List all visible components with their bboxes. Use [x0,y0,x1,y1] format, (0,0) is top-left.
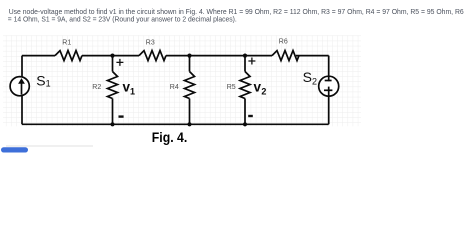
svg-text:R3: R3 [146,40,155,47]
wire branch R4 bottom lead [189,99,191,125]
resistor R6 [272,51,299,61]
node junction bottom R4 [187,122,191,126]
node junction top R2 [110,54,114,58]
svg-text:= 14 Ohm, S1 = 9A, and S2 = 23: = 14 Ohm, S1 = 9A, and S2 = 23V (Round y… [8,15,237,24]
svg-text:R4: R4 [170,84,179,91]
svg-text:R6: R6 [279,38,288,45]
wire branch R4 top lead [189,56,191,72]
v2 plus polarity mark [248,58,255,65]
wire top segment between R1 and R3 [82,55,139,57]
wire branch R2 bottom lead [112,99,114,125]
wire top segment right (R6 to corner) [296,55,329,57]
wire branch R2 top lead [112,56,114,72]
grid background of schematic [3,35,361,126]
voltage source S2 [319,76,339,97]
node junction top R5 [243,54,247,58]
wire branch R5 top lead [244,56,246,72]
scrollbar track line [6,145,93,147]
resistor R5 [240,72,250,99]
v2 minus polarity mark [248,115,253,117]
svg-text:R5: R5 [227,84,236,91]
resistor R1 [55,51,82,61]
current source S1 [10,77,29,96]
wire top segment between R3 and R6 [166,55,272,57]
svg-text:R2: R2 [92,84,101,91]
wire left vertical with S1 [21,56,23,125]
wire branch R5 bottom lead [244,99,246,125]
v1 plus polarity mark [116,59,123,66]
resistor R4 [185,72,195,99]
resistor R3 [139,51,166,61]
v1 minus polarity mark [119,115,124,117]
scrollbar blue thumb [1,147,28,152]
svg-text:Fig. 4.: Fig. 4. [152,130,188,145]
wire right vertical with S2 [328,56,330,125]
node junction top R4 [187,54,191,58]
wire top segment left (corner to R1) [22,55,55,57]
node junction bottom R2 [110,122,114,126]
resistor R2 [108,72,118,99]
svg-text:R1: R1 [62,40,71,47]
wire bottom segment [22,123,329,125]
node junction bottom R5 [243,122,247,126]
